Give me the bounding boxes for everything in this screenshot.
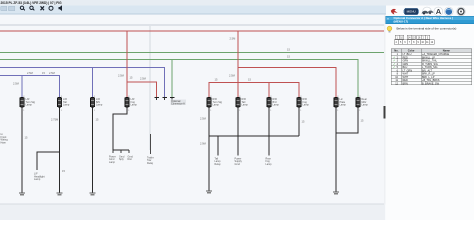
svg-text:Lamp: Lamp — [273, 104, 280, 107]
svg-text:Sply: Sply — [119, 158, 124, 161]
toolbar icon circle — [49, 6, 53, 10]
connector A pin bars — [155, 98, 175, 101]
table rows — [395, 53, 449, 85]
wire: blue lower bus — [0, 75, 60, 97]
wire: black stub x218 — [217, 136, 219, 156]
wire: blue bus to connector A pin2 — [0, 67, 165, 97]
sidebar background — [386, 0, 474, 220]
svg-text:2.5M: 2.5M — [229, 74, 235, 78]
wire: black lamp E4 to terminal row — [113, 108, 127, 151]
wire: black lamp E10 join — [336, 108, 358, 134]
svg-text:2.5M: 2.5M — [230, 37, 236, 41]
toolbar button 1 — [1, 6, 7, 11]
svg-text:Lamp: Lamp — [109, 161, 116, 164]
wire: gray fold line — [149, 26, 151, 150]
svg-text:Lamp: Lamp — [96, 104, 103, 107]
wire: red branch to connector A pin1 — [127, 82, 157, 98]
toolbar icon speaker — [59, 5, 63, 11]
svg-text:Connector A: Connector A — [171, 102, 185, 105]
toolbar icon zoom-in — [20, 6, 25, 10]
wire: black lamp E7 down — [268, 108, 270, 156]
icon: cars — [422, 11, 429, 14]
stub labels below black bus — [215, 158, 273, 166]
wire: red top bus — [0, 30, 385, 32]
svg-text:MENU: MENU — [407, 10, 416, 14]
svg-text:Color: Color — [408, 49, 415, 53]
icon: red brand — [391, 9, 398, 15]
svg-text:BRN: BRN — [403, 82, 408, 85]
svg-text:Lamp: Lamp — [26, 104, 33, 107]
wire: red vertical feed right section — [237, 31, 239, 98]
wire: black lamp E1 to ground G1 — [21, 108, 23, 194]
wire: red vertical feed lamp E4 — [126, 31, 128, 98]
svg-text:Lamp: Lamp — [63, 104, 70, 107]
diagram scrollbar — [384, 14, 386, 204]
wire: gray separator — [0, 24, 385, 26]
lamp E4 — [125, 98, 129, 108]
lamp E5 — [207, 98, 211, 108]
svg-text:Lamp: Lamp — [340, 104, 347, 107]
title bar — [0, 0, 474, 6]
svg-text:2.75M: 2.75M — [51, 118, 58, 122]
svg-text:Lamp: Lamp — [213, 104, 220, 107]
svg-text:2.5M: 2.5M — [49, 71, 55, 75]
ground G2 — [57, 193, 63, 196]
sidebar blue header — [386, 16, 474, 24]
svg-text:2.5M: 2.5M — [27, 71, 33, 75]
lamp E2 — [57, 98, 61, 108]
lamp pin numbers — [23, 96, 361, 112]
svg-text:Lamp: Lamp — [242, 104, 249, 107]
terminal labels — [109, 156, 133, 164]
svg-text:Lamp: Lamp — [34, 178, 41, 181]
connector pinout row 1 — [395, 35, 430, 39]
svg-text:Relay: Relay — [215, 163, 222, 166]
wire: green bus 1 — [0, 52, 385, 54]
svg-text:✓: ✓ — [393, 65, 395, 69]
svg-text:2.9M: 2.9M — [200, 142, 206, 146]
svg-text:Below is the terminal side of: Below is the terminal side of the connec… — [397, 26, 457, 30]
lamp E1 — [20, 98, 24, 108]
wire: green bus 2 with drop to lamp E10 — [0, 60, 358, 98]
relay stub label — [147, 157, 154, 165]
diagram background — [0, 14, 384, 204]
icon: navy pill — [404, 8, 419, 14]
table grid — [391, 49, 471, 85]
svg-text:2.5M: 2.5M — [200, 117, 206, 121]
svg-text:No.: No. — [394, 49, 398, 53]
wire: red bus y67 to lamp E9 — [238, 67, 336, 97]
svg-text:Lamp: Lamp — [131, 104, 138, 107]
ground G4 — [206, 191, 212, 194]
svg-text:»: » — [387, 17, 389, 21]
wire: green drop to connector A pin3 — [171, 60, 173, 98]
wire labels — [13, 37, 364, 174]
wire: black branch to headlight stub — [37, 152, 60, 170]
ground G5 — [333, 192, 339, 195]
relay stub — [150, 134, 152, 154]
svg-text:Relay: Relay — [147, 162, 154, 165]
svg-text:2.5M: 2.5M — [140, 77, 146, 81]
ground G3 — [90, 193, 96, 196]
wire: blue drop to lamp E3 — [92, 67, 94, 97]
svg-text:Harn: Harn — [1, 141, 7, 144]
wire: black lamp E6 down — [237, 108, 239, 156]
svg-text:2.5M: 2.5M — [13, 82, 19, 86]
icon: blue globe — [445, 8, 452, 15]
connector A label — [171, 99, 187, 105]
svg-text:2.5M: 2.5M — [118, 74, 124, 78]
wire: black lamp E9 to ground G5 — [335, 108, 337, 193]
wire: black bus y136 — [209, 135, 299, 137]
lamp E8 — [297, 98, 301, 108]
svg-text:Name: Name — [443, 49, 451, 53]
toolbar button 2 — [8, 6, 15, 11]
wire: black lamp E3 to ground G3 — [92, 108, 94, 194]
left margin text — [1, 133, 9, 144]
terminal row under E4 — [113, 150, 129, 153]
svg-text:Grnd: Grnd — [235, 163, 241, 166]
svg-text:Lamp: Lamp — [362, 104, 369, 107]
wire: red lower bus right — [209, 82, 299, 97]
icon: gear — [458, 9, 464, 15]
lamp E10 — [356, 98, 360, 108]
wire: red drop to lamp E7 — [268, 82, 270, 97]
toolbar — [0, 6, 386, 15]
wire: black lamp E8 down — [298, 108, 300, 137]
wire: blue drop to lamp E1 — [21, 75, 23, 97]
wire: black lamp E5 to ground G4 — [208, 108, 210, 192]
svg-text:Dist: Dist — [128, 158, 132, 161]
tip lightbulb — [387, 26, 392, 31]
svg-text:2015 PL ZF-53 (3.6L) VFE 2WD): 2015 PL ZF-53 (3.6L) VFE 2WD) | 07 | FIG — [1, 1, 63, 5]
headlight stub label — [34, 173, 45, 182]
toolbar icon zoom-out — [30, 6, 35, 10]
icon button backgrounds — [423, 7, 466, 16]
svg-text:Lamp: Lamp — [266, 163, 273, 166]
svg-text:A: A — [436, 7, 442, 16]
svg-text:Lamp: Lamp — [303, 104, 310, 107]
lamp E9 — [334, 98, 338, 108]
footer bar — [0, 204, 385, 220]
lamp labels — [26, 98, 369, 107]
ground G1 — [19, 193, 25, 196]
toolbar icon close — [41, 6, 45, 10]
svg-text:B_BRAKE_SW: B_BRAKE_SW — [422, 82, 440, 85]
wire: black lamp E2 to ground G2 — [59, 108, 61, 194]
lamp E3 — [90, 98, 94, 108]
lamp E6 — [236, 98, 240, 108]
connector pinout row 2 — [394, 40, 434, 44]
lamp E7 — [267, 98, 271, 108]
green checks — [393, 55, 395, 69]
sidebar table — [391, 49, 471, 86]
svg-text:(MENU-17): (MENU-17) — [394, 20, 409, 24]
